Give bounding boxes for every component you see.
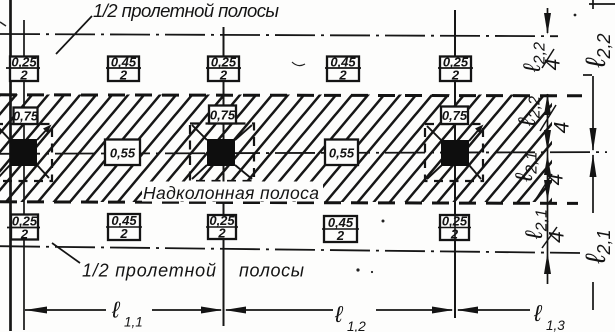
wire: column line 2 vertical — [223, 27, 225, 326]
chain arrowheads — [544, 13, 551, 35]
box 0,45/2 r1s1 — [106, 55, 141, 83]
diagonals column 1 — [0, 127, 49, 178]
svg-text:ℓ: ℓ — [533, 300, 543, 326]
big label l2,1 — [580, 229, 614, 264]
label l2,1/4 seg3 — [511, 151, 541, 182]
axis line A (top half-strip boundary) — [0, 34, 558, 36]
label l2,2/4 seg1 — [511, 42, 574, 248]
box 0,25/2 r3c3 — [438, 214, 471, 242]
bottom dimension line l11 span — [25, 309, 530, 311]
svg-text:2: 2 — [219, 68, 228, 83]
capital dashed square S3 — [425, 124, 483, 181]
svg-text:4: 4 — [545, 174, 568, 186]
svg-text:ℓ2,1: ℓ2,1 — [580, 229, 614, 264]
svg-text:1/2 пролетной полосы: 1/2 пролетной полосы — [93, 0, 279, 21]
svg-text:2: 2 — [119, 226, 128, 241]
column 3 (black) — [441, 140, 469, 166]
svg-text:полосы: полосы — [239, 261, 304, 281]
svg-text:2: 2 — [336, 228, 345, 243]
svg-text:2: 2 — [19, 68, 28, 83]
svg-text:2: 2 — [338, 68, 347, 83]
box 0,25/2 r3c1 — [7, 214, 40, 242]
wire: column line 1 vertical — [23, 20, 25, 330]
row1 coefficient boxes — [6, 55, 473, 83]
top tick — [589, 3, 615, 5]
outer chain arrowheads at center line — [590, 128, 597, 152]
band bottom dashed edge — [0, 202, 578, 204]
svg-text:2: 2 — [119, 68, 128, 83]
label l2,2/4 seg2 — [514, 96, 544, 127]
svg-text:ℓ: ℓ — [111, 297, 121, 323]
diagonals column 3 — [427, 126, 481, 179]
white patch + label: надколонная полоса — [142, 182, 323, 202]
scan specks — [574, 14, 577, 17]
0,75 box over column 1 — [13, 106, 468, 166]
svg-text:4: 4 — [542, 59, 565, 71]
svg-text:4: 4 — [551, 122, 574, 134]
svg-text:2: 2 — [451, 68, 460, 83]
capital dashed square S1 — [0, 124, 52, 181]
0,55 box span 2 — [325, 140, 358, 166]
arrow on S3 NE diagonal — [475, 125, 484, 134]
wire: stem through r3c3 box — [454, 215, 456, 240]
svg-text:1,3: 1,3 — [546, 318, 565, 332]
wire: column line 3 vertical — [454, 10, 456, 318]
box 0,25/2 r1c2 — [206, 55, 241, 83]
column 2 (black) — [207, 139, 235, 166]
outer dimension line right — [592, 0, 594, 9]
leader top — [56, 16, 92, 54]
axis line C (column center line) — [0, 152, 607, 154]
svg-text:Надколонная полоса: Надколонная полоса — [143, 183, 319, 203]
svg-text:4: 4 — [546, 231, 569, 243]
svg-text:ℓ2,2: ℓ2,2 — [580, 33, 614, 68]
svg-text:0,75: 0,75 — [13, 109, 39, 124]
svg-text:2: 2 — [217, 226, 226, 241]
column 1 (black) — [10, 139, 37, 166]
leader bottom — [52, 243, 80, 263]
label break dash — [583, 74, 592, 76]
box 0,25/2 r1c1 — [6, 55, 40, 83]
svg-text:0,55: 0,55 — [110, 146, 136, 161]
label l2,1/4 seg4 — [521, 209, 551, 240]
hatched column strip band — [0, 95, 552, 203]
capital dashed square S2 — [190, 124, 254, 182]
0,55 box span 1 — [105, 140, 140, 166]
svg-text:1/2 пролетной: 1/2 пролетной — [82, 261, 216, 281]
inner right dimension chain — [547, 8, 549, 33]
wire: left edge vertical — [9, 0, 12, 331]
svg-text:ℓ: ℓ — [334, 301, 344, 327]
arrow on S1 NE diagonal — [43, 125, 52, 134]
band top dashed edge — [0, 95, 582, 96]
svg-text:1,2: 1,2 — [347, 319, 366, 332]
svg-text:0,75: 0,75 — [210, 108, 236, 123]
axis line B (bottom half-strip boundary) — [0, 246, 580, 253]
box 0,45/2 r1s2 — [325, 55, 361, 83]
box 0,25/2 r3c2 — [206, 213, 238, 241]
big label l2,2 — [580, 33, 614, 68]
row3 coefficient boxes — [7, 213, 471, 243]
diagonals column 2 — [192, 125, 252, 179]
svg-text:0,75: 0,75 — [442, 108, 468, 123]
svg-text:1,1: 1,1 — [124, 315, 143, 330]
box 0,25/2 r1c3 — [438, 55, 473, 83]
box 0,45/2 r3s2 — [322, 215, 359, 243]
0,75 box over column 2 — [209, 106, 236, 124]
0,75 box over column 3 — [441, 107, 468, 125]
svg-text:0,55: 0,55 — [329, 146, 355, 161]
svg-text:2: 2 — [20, 227, 29, 242]
arrowheads bottom dimension — [25, 307, 47, 314]
box 0,45/2 r3s1 — [106, 213, 142, 241]
